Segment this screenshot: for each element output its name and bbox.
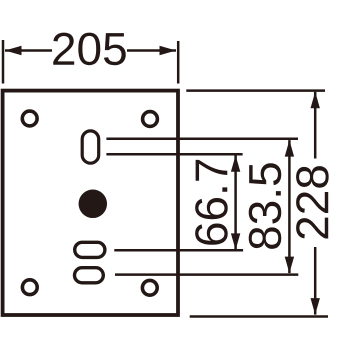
corner hole top-left	[22, 111, 37, 126]
vertical slot	[82, 131, 99, 163]
dimension line 228 lower segment	[314, 247, 317, 315]
extension line slot top arc	[106, 137, 298, 140]
lower oval slot 2	[75, 268, 104, 283]
center knockout dot	[79, 190, 108, 219]
dimension line 205 right segment	[127, 49, 176, 52]
mounting plate outline	[3, 91, 178, 315]
extension line left of 205	[2, 40, 5, 84]
lower oval slot 1	[75, 242, 105, 257]
extension line oval2 center	[115, 273, 298, 276]
dimension line 66.7	[234, 155, 237, 250]
extension line plate bottom	[190, 315, 328, 318]
arrowhead 228 down	[311, 298, 320, 315]
extension line oval1 center	[114, 249, 243, 252]
extension line plate top	[186, 89, 325, 92]
arrowhead 83.5 down	[285, 257, 294, 274]
corner hole top-right	[143, 112, 158, 127]
corner hole bottom-left	[22, 280, 37, 295]
dimension line 228 upper segment	[314, 92, 317, 159]
arrowhead 83.5 up	[285, 140, 294, 157]
dimension text 228	[296, 166, 329, 238]
corner hole bottom-right	[142, 280, 157, 295]
extension line slot bottom arc	[106, 153, 242, 156]
arrowhead 66.7 down	[231, 233, 240, 250]
arrowhead 205 right	[160, 46, 177, 55]
arrowhead 228 up	[311, 92, 320, 109]
arrowhead 66.7 up	[231, 155, 240, 172]
extension line right of 205	[177, 41, 180, 84]
arrowhead 205 left	[5, 46, 22, 55]
dimension line 205 left segment	[5, 49, 52, 52]
dimension line 83.5	[288, 140, 291, 273]
dimension text 205	[53, 33, 126, 66]
dimension text 83.5	[249, 163, 282, 249]
dimension text 66.7	[195, 160, 228, 245]
